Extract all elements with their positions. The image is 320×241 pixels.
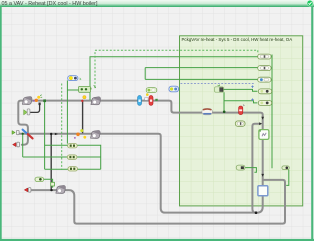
svg-text:PckgVAV re-heat - Sys 5 - DX c: PckgVAV re-heat - Sys 5 - DX cool, HW he… xyxy=(182,37,293,42)
svg-text:05 a VAV - Reheat [DX cool - H: 05 a VAV - Reheat [DX cool - HW boiler] xyxy=(2,1,98,7)
